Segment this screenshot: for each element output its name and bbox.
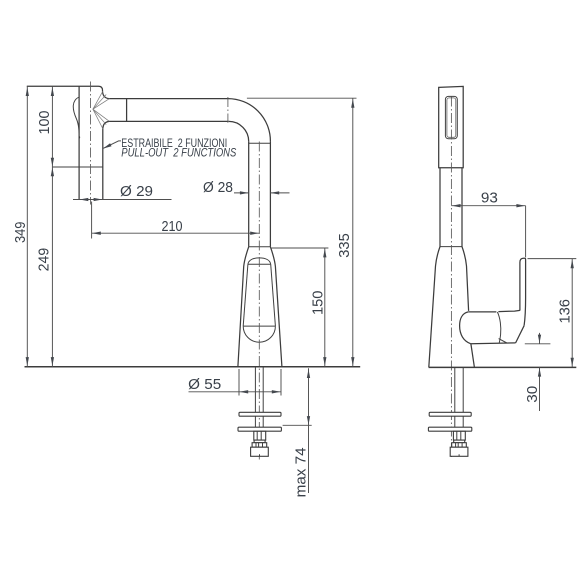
label leader line xyxy=(103,141,121,148)
left view: spout outer bend xyxy=(228,99,271,142)
left view: head centerline xyxy=(90,82,92,205)
right view: handle body bottom edge xyxy=(471,342,516,345)
right view: lock nut xyxy=(452,443,467,448)
right view: shank right line xyxy=(462,367,464,431)
dimension 30 line xyxy=(539,333,541,411)
left view: spray head arm joint vertical xyxy=(126,99,128,122)
left view: washer 2 xyxy=(238,427,281,431)
svg-text:30: 30 xyxy=(524,386,541,403)
left view: spout arm bottom edge xyxy=(109,120,229,122)
svg-text:136: 136 xyxy=(557,299,574,324)
left view: lower trumpet fillet xyxy=(103,121,109,128)
left view: supply cap xyxy=(251,447,269,456)
right view: washer 1 xyxy=(429,412,471,416)
svg-text:210: 210 xyxy=(162,218,183,235)
left view: cartridge right side xyxy=(271,264,276,326)
left view: shank left line xyxy=(254,367,256,432)
svg-text:Ø 55: Ø 55 xyxy=(188,376,221,393)
right view: handle lever xyxy=(520,258,526,325)
dimension 349 line xyxy=(26,86,28,367)
right view: thin collar xyxy=(454,440,465,443)
dimension diameter 29 line xyxy=(73,199,172,201)
left view: cartridge dome chord xyxy=(248,263,271,265)
dimension 93 line xyxy=(451,205,525,207)
left view: tube tangent joint line xyxy=(249,142,271,144)
right view: handle body top edge xyxy=(468,310,520,312)
left view: tube body joint line xyxy=(249,246,271,248)
right view: spray face window inner xyxy=(447,98,456,137)
right view: handle body left lobe xyxy=(460,312,471,344)
left view: hex nut xyxy=(254,431,266,440)
svg-text:93: 93 xyxy=(481,190,498,207)
left view: spray handle blade xyxy=(73,97,79,139)
right view: washer 2 xyxy=(428,427,471,431)
dimension 100-249 line xyxy=(51,86,53,367)
right view: tube body joint line xyxy=(440,246,462,248)
left view: spray head left edge xyxy=(78,86,80,199)
right view: handle body right diagonal xyxy=(516,326,525,343)
left view: cartridge chord line xyxy=(243,325,275,327)
right view: spray head outline xyxy=(439,86,464,167)
left view: cartridge left side xyxy=(243,264,248,326)
left view: spout inner bend xyxy=(229,121,249,141)
left view: spray head bottom edge xyxy=(79,199,103,201)
dimension diameter 28 line xyxy=(234,192,290,194)
right view: supply cap xyxy=(450,447,468,456)
svg-text:100: 100 xyxy=(36,111,53,135)
left view: lock nut xyxy=(252,443,267,448)
left view: upper trumpet fillet xyxy=(103,91,110,99)
svg-text:PULL-OUT 2 FUNCTIONS: PULL-OUT 2 FUNCTIONS xyxy=(121,147,236,160)
left view: shank right line xyxy=(262,367,264,432)
left view: bend tangent centerline xyxy=(227,97,229,123)
svg-text:335: 335 xyxy=(336,233,353,258)
right view: tube left edge xyxy=(439,168,441,247)
left view: body cone left edge xyxy=(238,247,249,367)
dimension 335 line xyxy=(352,98,354,366)
dimension diameter 55 line xyxy=(189,391,282,393)
left view: washer 1 xyxy=(239,412,281,416)
dimension 136 line xyxy=(571,259,573,367)
svg-text:max 74: max 74 xyxy=(293,447,310,497)
right view: centerline xyxy=(450,97,452,460)
dimension max 74 line xyxy=(308,368,310,493)
left view: spray head top outline xyxy=(27,86,103,91)
left view: body cone right edge xyxy=(270,247,282,367)
right view: body cone right edge lower xyxy=(471,344,475,367)
svg-text:150: 150 xyxy=(309,291,326,316)
svg-text:Ø 29: Ø 29 xyxy=(120,183,153,200)
left view: trumpet fan rays xyxy=(93,92,109,129)
right view: body cone left edge xyxy=(429,247,440,368)
svg-text:Ø 28: Ø 28 xyxy=(203,179,233,196)
left view: spout tube left edge xyxy=(248,141,250,246)
right view: shank left line xyxy=(454,367,456,431)
left view: spray head joint line xyxy=(52,166,102,168)
left view: spout arm top edge xyxy=(109,98,228,100)
left view: cartridge dome xyxy=(248,258,271,264)
dimension 210 line xyxy=(92,232,260,234)
deck line right figure xyxy=(429,366,577,368)
right view: handle inner diagonal xyxy=(499,339,507,343)
right view: spray face window outer xyxy=(445,96,457,138)
svg-text:349: 349 xyxy=(12,222,29,244)
left view: cartridge bottom arc xyxy=(243,326,275,342)
right view: tube right edge xyxy=(461,168,463,247)
right view: hex nut xyxy=(453,431,465,440)
left view: tube and body centerline xyxy=(258,142,260,460)
left view: spray head right edge xyxy=(102,129,104,199)
dimension 150 line xyxy=(324,248,326,367)
right view: body cone right edge upper xyxy=(462,247,469,311)
right view: handle inner curve xyxy=(497,312,500,343)
left view: thin collar xyxy=(254,440,265,443)
left view: spout tube right edge xyxy=(269,141,271,247)
deck line left figure xyxy=(25,366,361,368)
svg-text:249: 249 xyxy=(35,248,52,272)
